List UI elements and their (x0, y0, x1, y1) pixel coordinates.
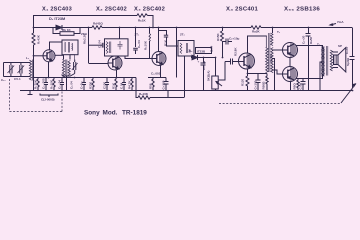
resistor R 10K feedback (138, 96, 150, 99)
resistor Rc on H1 (137, 14, 148, 17)
oscillator coil windings (62, 60, 64, 78)
wire X1 emitter down (48, 62, 50, 78)
antenna coil L1 (29, 60, 33, 81)
resistor R5 10K (53, 78, 55, 91)
svg-text:Sp4Ω: Sp4Ω (346, 57, 350, 66)
wire X2 emitter down (116, 70, 118, 78)
svg-text:+: + (198, 60, 200, 64)
svg-text:C.04: C.04 (210, 45, 214, 52)
capacitor C bypass 2 (105, 78, 109, 91)
svg-text:R56: R56 (148, 83, 152, 89)
variable capacitor CV2 trimmer (18, 62, 25, 77)
transistor X4 (239, 53, 255, 69)
oscillator coil box (62, 40, 78, 55)
svg-text:C(J-0005): C(J-0005) (41, 98, 55, 102)
diode D2 detector (192, 55, 198, 60)
wire T1 center tap down (272, 59, 275, 91)
diode D1 on rail (56, 25, 62, 30)
transistor X3 (152, 52, 166, 66)
resistor R1 43K on left bus (32, 33, 35, 45)
wire IFT1 secondary to X3 base (125, 56, 152, 59)
wire T1 sec to X5 base (272, 49, 283, 51)
svg-text:C.04: C.04 (298, 83, 302, 90)
capacitor C12 (44, 78, 48, 91)
wire tuning left vertical (3, 63, 5, 77)
transistor X1 (43, 50, 55, 62)
svg-text:C+47: C+47 (345, 46, 349, 54)
svg-text:C₆.04: C₆.04 (70, 81, 74, 89)
capacitor C13 (60, 78, 64, 91)
svg-text:C₄.04: C₄.04 (98, 40, 102, 48)
svg-text:C+100: C+100 (161, 80, 165, 89)
resistor R series on rail (92, 26, 102, 29)
transistor X2 (108, 56, 122, 70)
wire right edge vertical (352, 28, 354, 57)
wire osc coil bottom (62, 74, 74, 77)
svg-text:C100: C100 (102, 81, 106, 89)
capacitor inside IFT1 (118, 43, 123, 45)
svg-text:Rb 1K: Rb 1K (62, 28, 72, 32)
driver transformer T1 (248, 28, 274, 73)
svg-text:C+10μ: C+10μ (202, 61, 206, 70)
svg-text:5KΩ(A): 5KΩ(A) (207, 71, 211, 81)
svg-text:Rc1K: Rc1K (138, 19, 147, 23)
svg-text:C₁₂.005: C₁₂.005 (41, 78, 45, 89)
svg-text:Sony: Sony (84, 110, 100, 117)
wire X1 top to box (50, 40, 63, 50)
wire feedback lower (136, 78, 138, 98)
svg-text:D₁ IT23M: D₁ IT23M (49, 17, 65, 21)
wire X2 collector to IFT1 (114, 55, 116, 57)
capacitor C driver emitter (248, 74, 261, 91)
svg-text:C+5μ: C+5μ (79, 81, 83, 89)
svg-text:R5Ω: R5Ω (293, 83, 297, 90)
dashed mechanical link volume switch (219, 103, 341, 105)
svg-text:Cₒ+10μ: Cₒ+10μ (229, 37, 239, 41)
capacitor C bypass X3 (160, 78, 169, 91)
electrolytic cap right (350, 56, 355, 58)
resistor Ra series on rail (251, 26, 261, 29)
resistor R56 driver bias (266, 74, 268, 91)
output transformer T2 (322, 46, 333, 76)
wire bottom ground rail (20, 90, 353, 92)
arrow 7mA (330, 24, 336, 26)
svg-text:C.04: C.04 (119, 82, 123, 89)
svg-text:R₁43K: R₁43K (37, 34, 41, 44)
dashed mechanical link tuning (10, 74, 63, 112)
junction dots (33, 27, 354, 92)
wire tuning top (4, 62, 31, 64)
electrolytic decoupling cap (306, 28, 311, 91)
IF transformer box IFT3 (178, 41, 194, 57)
wire to X2 base (89, 63, 109, 65)
resistor R15K from rail (222, 28, 224, 32)
wire X5 emitter to X6 (289, 58, 291, 67)
wire B+ rail (34, 27, 93, 29)
svg-text:C₁₃.04: C₁₃.04 (57, 80, 61, 89)
svg-text:R₆10K: R₆10K (144, 40, 148, 50)
capacitor C output (301, 78, 306, 90)
wire T1 sec to X6 base (272, 70, 283, 74)
svg-text:X₁ 2SC403: X₁ 2SC403 (42, 7, 72, 13)
svg-text:C₉.001: C₉.001 (151, 72, 161, 76)
variable capacitor CV1 (8, 62, 15, 77)
wire bypass drop x135.5 (135, 28, 137, 48)
wire rail to IFT1 (119, 28, 121, 39)
wire X3 emitter down (160, 66, 162, 78)
transistor X5 (283, 43, 298, 58)
wire rail drop x88 (88, 28, 90, 64)
label box IT23B (196, 48, 212, 54)
speaker SP (333, 48, 346, 73)
svg-text:R₂5K: R₂5K (269, 54, 273, 62)
svg-text:Mod.: Mod. (103, 110, 118, 117)
wire X4 emitter down (247, 69, 249, 76)
wire IFT3 secondary to detector (192, 56, 216, 58)
resistor Re1 (92, 78, 94, 91)
wire X4 collector to T1 (248, 36, 267, 53)
svg-text:2T₂: 2T₂ (180, 33, 186, 37)
wire X5 collector to T2 (296, 46, 323, 49)
svg-text:R₅10K: R₅10K (139, 92, 149, 96)
caption Sony Mod. TR-1819 (84, 110, 147, 117)
wire AGC bus (33, 77, 136, 79)
IF transformer box IFT1 (105, 39, 129, 56)
wire top feed line H1 (33, 15, 137, 17)
resistor R2 70K (37, 78, 39, 91)
resistor Rb 1K parallel box (53, 28, 80, 36)
svg-text:SP: SP (338, 44, 342, 48)
svg-text:X₂ 2SC402: X₂ 2SC402 (96, 7, 127, 13)
svg-text:R120: R120 (241, 78, 245, 86)
wire left bus to rail (33, 78, 35, 91)
capacitor C bypass 3 (122, 78, 126, 91)
svg-text:7mA: 7mA (337, 20, 344, 24)
wire rail drop x176 (176, 28, 178, 78)
svg-text:R₂70K: R₂70K (34, 79, 38, 89)
svg-text:IT23B: IT23B (197, 49, 206, 53)
resistor X3 emitter (152, 78, 154, 91)
osc trimmer cap (70, 55, 78, 74)
svg-text:C₅.04: C₅.04 (137, 40, 141, 48)
svg-text:R3.9K: R3.9K (234, 47, 238, 56)
volume pot VR (212, 58, 222, 91)
svg-text:X₃ 2SC402: X₃ 2SC402 (134, 7, 165, 13)
neutralizing capacitor X3 (164, 34, 168, 36)
svg-text:R15K: R15K (216, 32, 220, 41)
capacitor C emitter bypass 1 (82, 78, 86, 91)
resistor Re2 (115, 78, 117, 91)
wire T2 center tap down (320, 62, 323, 90)
svg-text:R56Ω: R56Ω (262, 81, 266, 90)
wire X1 collector right (55, 54, 64, 56)
wire X6 emitter down (290, 82, 292, 91)
svg-text:Cₓ+30: Cₓ+30 (302, 35, 306, 44)
switch SW (341, 84, 356, 104)
wire rail drop to X3 collector (158, 28, 160, 52)
capacitor C5 (133, 47, 138, 49)
wire detector return vertical (184, 56, 186, 98)
resistor R 4.7K (131, 78, 133, 91)
svg-text:CV-1: CV-1 (14, 77, 21, 81)
svg-text:Ra2K: Ra2K (252, 30, 261, 34)
svg-text:R4.7K: R4.7K (127, 80, 131, 89)
svg-text:Rd43Ω: Rd43Ω (93, 22, 103, 26)
svg-text:C₁₁: C₁₁ (1, 78, 6, 82)
svg-text:R₅10K: R₅10K (49, 79, 53, 89)
svg-text:R300: R300 (88, 81, 92, 89)
capacitor C AGC (222, 39, 232, 45)
resistor output emitter (297, 79, 299, 91)
svg-text:X₄ 2SC401: X₄ 2SC401 (226, 7, 258, 13)
svg-text:Rb2.2K: Rb2.2K (83, 33, 87, 44)
capacitor C4 coupling (89, 43, 105, 48)
wire H1 to rail corner (148, 16, 154, 28)
svg-text:C+100: C+100 (253, 80, 257, 89)
wire osc box bottom stubs (63, 55, 65, 60)
resistor X4 emitter (246, 76, 249, 90)
wire left bus vertical x33 (33, 16, 35, 34)
svg-text:R1K: R1K (111, 82, 115, 89)
svg-text:X₅₆ 2SB136: X₅₆ 2SB136 (284, 7, 320, 13)
wire tuning bottom (4, 76, 31, 78)
transistor X6 (283, 67, 298, 82)
svg-text:TR-1819: TR-1819 (122, 110, 147, 117)
ground stub below rail (29, 91, 31, 95)
brace sub label (40, 94, 58, 96)
svg-text:Ra50: Ra50 (309, 36, 313, 44)
resistor R6 bias X3 (149, 28, 151, 34)
electrolytic cap C det (198, 58, 206, 91)
wire X6 collector to T2 (296, 74, 323, 79)
wire L1 to X1 base (34, 55, 44, 57)
coupling cap to driver (218, 59, 238, 81)
